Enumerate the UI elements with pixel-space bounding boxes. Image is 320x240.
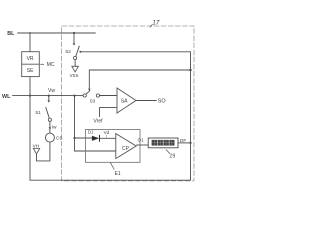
switch S3 right contact [96, 94, 99, 97]
svg-text:S2: S2 [65, 49, 71, 54]
current source CS [45, 133, 54, 142]
current Iw arrow [49, 127, 51, 130]
svg-text:CP: CP [122, 146, 130, 152]
sense amp SA [117, 88, 136, 113]
svg-text:19: 19 [169, 154, 175, 160]
svg-text:BL: BL [7, 31, 15, 37]
wire Vref to SA [100, 108, 118, 117]
contact dot at S2 side [79, 51, 81, 53]
svg-text:CS: CS [56, 135, 62, 140]
wire VH to CS [37, 142, 50, 161]
S3 control arrow [88, 89, 90, 91]
block E1 box [85, 130, 140, 163]
switch S2 stub from BL [73, 33, 75, 43]
svg-text:WL: WL [2, 94, 11, 100]
diode D1 [92, 136, 99, 141]
comparator CP [116, 134, 136, 159]
wire SA output [136, 100, 157, 102]
svg-text:E1: E1 [115, 171, 121, 177]
junction at branch split [73, 137, 75, 139]
switch S1 contact arrow [48, 100, 51, 102]
wire BL to MC [29, 33, 31, 52]
junction bus-DF [189, 142, 191, 144]
svg-text:17: 17 [152, 20, 160, 27]
junction WL-MC wire [29, 95, 31, 97]
svg-text:Vw: Vw [48, 88, 55, 94]
switch S3 blade [86, 90, 90, 94]
wire S1 to CS [49, 121, 51, 133]
wire CP output [136, 144, 148, 146]
svg-text:VSS: VSS [70, 73, 79, 78]
wire BL [17, 32, 96, 34]
memory cell MC box [22, 52, 40, 77]
svg-text:VH: VH [33, 143, 39, 148]
MC tie mark [40, 63, 44, 65]
svg-text:DF: DF [180, 138, 186, 143]
wire decision output to bus [178, 142, 191, 144]
wire S2 to VSS [74, 60, 76, 67]
switch S2 blade [76, 46, 80, 57]
supply VSS arrow [72, 66, 79, 72]
wire S3 to SA [100, 95, 118, 97]
switch S2 contact arrow [73, 43, 76, 46]
junction WL-E1 branch [73, 95, 75, 97]
dashed unit box 17 [62, 26, 195, 181]
svg-text:Iw: Iw [52, 124, 57, 129]
svg-text:Vref: Vref [94, 119, 104, 125]
svg-text:S1: S1 [35, 110, 41, 115]
junction control bus [189, 69, 191, 71]
switch S2 pivot [74, 56, 77, 59]
svg-text:Vd: Vd [104, 130, 110, 135]
wire WL branch down to comparator block [75, 96, 92, 138]
wire WL [12, 95, 83, 97]
junction WL-S1 [48, 95, 50, 97]
decision circuit text glyphs [152, 140, 175, 146]
svg-text:SA: SA [121, 99, 128, 105]
control wire to S3 [89, 70, 190, 89]
svg-text:D1: D1 [88, 130, 94, 135]
svg-text:SE: SE [27, 68, 34, 74]
svg-text:MC: MC [47, 62, 55, 68]
junction BL-S2 [73, 32, 75, 34]
svg-text:O1: O1 [138, 137, 145, 142]
switch S1 pivot [48, 118, 51, 121]
wire MC bottom to WL and around bottom to right bus up to S2 contact [30, 52, 191, 180]
wire D1 to CP plus input [100, 137, 116, 139]
block E1 leader [110, 162, 114, 169]
switch S1 stub from WL [48, 96, 50, 101]
label 17 leader [150, 25, 152, 28]
diode D1 cathode bar [99, 135, 101, 142]
switch S3 left contact [83, 94, 86, 97]
wire to CP minus input [75, 138, 116, 151]
svg-text:S3: S3 [90, 98, 96, 103]
switch S1 blade [46, 107, 50, 118]
decision circuit box [148, 138, 178, 148]
svg-text:VR: VR [27, 56, 34, 62]
supply VH arrow [33, 149, 39, 154]
decision circuit numeral leader [166, 149, 170, 153]
junction BL-MC [29, 32, 31, 34]
node Vd tick [106, 135, 108, 138]
svg-text:SO: SO [158, 99, 166, 105]
